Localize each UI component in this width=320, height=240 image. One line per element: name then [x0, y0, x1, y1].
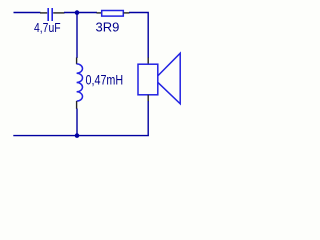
resistor R1 pin right: [124, 12, 130, 14]
wire from inductor bottom to rail: [76, 109, 78, 136]
node junction top: [75, 10, 80, 15]
wire bottom rail: [13, 135, 149, 137]
inductor L1 pin bottom: [76, 101, 78, 109]
svg-text:0,47mH: 0,47mH: [86, 72, 124, 88]
resistor R1 pin left: [97, 12, 102, 14]
capacitor C1 pin right: [53, 12, 64, 14]
capacitor C1 plates: [48, 8, 52, 21]
inductor L1 pin top: [76, 58, 78, 65]
speaker LS1 pin bottom: [147, 95, 149, 102]
svg-text:4,7uF: 4,7uF: [34, 21, 61, 35]
resistor R1 body: [102, 11, 124, 17]
inductor L1 coil: [77, 64, 83, 101]
speaker LS1 body box: [138, 64, 158, 95]
wire top middle segment: [64, 12, 97, 14]
wire from speaker bottom down to rail: [147, 101, 149, 136]
speaker LS1 pin top: [147, 58, 149, 65]
wire vertical from top junction to inductor: [76, 13, 78, 59]
capacitor C1 pin left: [40, 12, 47, 14]
wire top right segment with corner down: [129, 13, 148, 59]
wire top left segment: [14, 12, 41, 14]
speaker LS1 horn: [158, 53, 180, 104]
node junction bottom: [75, 133, 80, 138]
svg-text:3R9: 3R9: [96, 19, 120, 34]
